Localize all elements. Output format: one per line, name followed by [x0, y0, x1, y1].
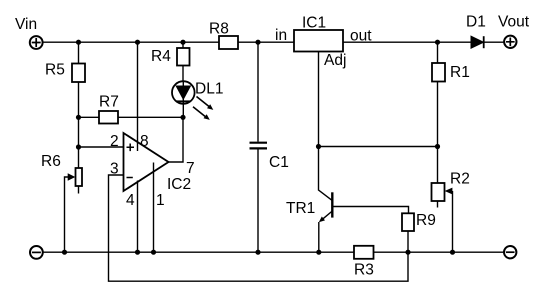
- wire R5 branch vertical: [78, 42, 80, 168]
- svg-text:IC1: IC1: [302, 15, 326, 32]
- resistor R7: [99, 111, 118, 124]
- wire TR1 collector: [319, 147, 333, 201]
- potentiometer R6 body: [76, 168, 83, 186]
- svg-text:R2: R2: [450, 171, 470, 188]
- junction bottom rail TR1 emitter: [316, 250, 321, 255]
- resistor R3: [354, 246, 374, 259]
- wire R2 top lead: [437, 147, 439, 184]
- wire R1 top lead: [437, 42, 439, 63]
- svg-text:Vin: Vin: [15, 16, 37, 33]
- svg-text:DL1: DL1: [195, 81, 223, 98]
- wire R4 to DL1: [182, 66, 184, 82]
- wire C1 branch: [257, 42, 259, 252]
- wire R6 wiper: [65, 177, 69, 252]
- wire TR1 emitter diagonal: [323, 211, 333, 219]
- potentiometer R2 body: [432, 183, 445, 201]
- svg-text:2: 2: [110, 133, 119, 150]
- junction bottom rail R6 wiper: [62, 250, 67, 255]
- terminal ground left minus: [30, 246, 43, 259]
- wire R2 bottom stub: [437, 201, 439, 208]
- wire op-amp pin 1: [153, 163, 155, 253]
- capacitor C1 plates: [250, 143, 268, 149]
- junction top rail R1/D1: [435, 40, 440, 45]
- wire TR1 base to R9: [333, 207, 409, 214]
- wire R2 wiper down: [452, 191, 454, 252]
- wire bottom rail left: [43, 251, 354, 253]
- LED DL1 light arrow 2: [193, 107, 210, 120]
- svg-text:Vout: Vout: [498, 14, 530, 31]
- terminal Vout plus: [504, 36, 516, 48]
- junction top rail pin8: [135, 40, 140, 45]
- diode D1: [471, 36, 484, 48]
- wire top rail middle (R8 to IC1 in): [238, 41, 294, 43]
- svg-text:R1: R1: [450, 64, 470, 81]
- svg-text:R6: R6: [41, 153, 61, 170]
- svg-text:R5: R5: [45, 62, 65, 79]
- junction top rail R4: [180, 40, 185, 45]
- resistor R4: [177, 48, 190, 66]
- wire Adj horizontal: [319, 146, 438, 148]
- resistor R5: [72, 64, 85, 83]
- transistor TR1 base bar: [331, 192, 333, 217]
- svg-text:IC2: IC2: [167, 176, 191, 193]
- svg-text:R4: R4: [151, 48, 171, 65]
- potentiometer R2 wiper arrow: [445, 188, 453, 195]
- wire top rail right (IC1 out to D1): [343, 41, 471, 43]
- junction bottom rail C1: [255, 250, 260, 255]
- svg-text:7: 7: [186, 160, 195, 177]
- wire op-amp pin 2 input: [79, 146, 124, 148]
- regulator IC1 box: [294, 30, 343, 52]
- wire IC1 Adj pin: [318, 52, 320, 147]
- svg-text:in: in: [275, 27, 287, 44]
- wire R6 bottom stub: [78, 186, 80, 194]
- terminal Vin plus: [30, 36, 43, 49]
- resistor R8: [219, 36, 238, 49]
- resistor R9: [402, 213, 414, 231]
- junction bottom rail pin1: [151, 250, 156, 255]
- wire R1 bottom to Adj node: [437, 82, 439, 147]
- wire op-amp pin 8: [137, 42, 139, 151]
- LED DL1 circle: [172, 81, 195, 104]
- junction R7 at R5 branch: [76, 115, 81, 120]
- svg-text:R8: R8: [209, 21, 229, 38]
- junction pin2 at R5 branch: [76, 144, 81, 149]
- wire top rail left (Vin to R8): [42, 41, 219, 43]
- junction bottom rail R9: [405, 250, 410, 255]
- junction Adj TR1 collector: [316, 144, 321, 149]
- potentiometer R6 wiper arrow: [68, 173, 76, 181]
- junction top rail C1: [255, 40, 260, 45]
- wire R4 branch top lead: [182, 42, 184, 48]
- LED DL1 triangle: [176, 86, 190, 99]
- terminal ground right minus: [504, 246, 516, 258]
- junction bottom rail R2 wiper: [450, 250, 455, 255]
- transistor TR1 emitter arrowhead: [319, 217, 325, 223]
- LED DL1 cathode bar: [176, 100, 190, 102]
- junction Adj R1 R2: [435, 144, 440, 149]
- junction bottom rail pin4: [135, 250, 140, 255]
- svg-text:8: 8: [140, 133, 149, 150]
- svg-text:4: 4: [126, 192, 135, 209]
- op-amp IC2 triangle: [124, 133, 169, 191]
- svg-text:TR1: TR1: [286, 200, 315, 217]
- svg-text:3: 3: [110, 161, 119, 178]
- svg-text:R7: R7: [99, 94, 119, 111]
- LED DL1 vertical lead inside: [182, 81, 184, 117]
- wire R9 bottom lead: [407, 231, 409, 252]
- wire bottom rail right: [374, 251, 505, 253]
- svg-text:1: 1: [156, 192, 165, 209]
- svg-text:Adj: Adj: [324, 52, 346, 69]
- junction DL1 cathode node: [180, 115, 185, 120]
- wire D1 cathode to Vout: [484, 41, 505, 43]
- wire TR1 emitter down: [318, 222, 320, 252]
- svg-text:out: out: [350, 28, 372, 45]
- svg-text:D1: D1: [466, 14, 486, 31]
- svg-text:R3: R3: [354, 262, 374, 279]
- op-amp plus marking: [127, 144, 135, 152]
- svg-text:R9: R9: [416, 212, 436, 229]
- resistor R1: [432, 63, 445, 82]
- wire R7 to DL1 node: [118, 116, 183, 118]
- svg-text:C1: C1: [269, 154, 289, 171]
- LED DL1 light arrow 1: [197, 97, 214, 110]
- wire op-amp pin 3 feedback loop: [109, 175, 409, 281]
- wire op-amp pin 4: [137, 181, 139, 253]
- wire R7 left lead: [79, 116, 100, 118]
- wire op-amp output pin 7: [169, 117, 184, 162]
- junction top rail R5: [76, 40, 81, 45]
- op-amp minus marking: [127, 177, 133, 179]
